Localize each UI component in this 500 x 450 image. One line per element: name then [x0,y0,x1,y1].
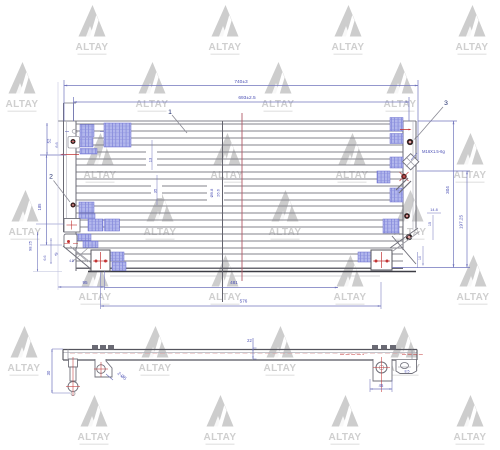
svg-text:1: 1 [168,109,172,116]
watermark r3c1 [84,133,117,183]
left tank [64,103,77,271]
dim 52 left [40,123,66,155]
bolt right 4 [406,234,412,240]
bottom right plate [371,228,420,270]
section line at x=222 [222,121,224,302]
dim 304 [418,121,457,268]
svg-text:ALTAY: ALTAY [8,363,41,374]
dim 45 [370,379,392,392]
svg-text:ALTAY: ALTAY [334,292,367,303]
left view bracket [94,359,112,377]
svg-text:ALTAY: ALTAY [78,432,111,443]
svg-text:52: 52 [47,138,52,143]
red arrow left [60,154,79,156]
dim 740±3 [64,79,418,160]
bar red centerline [70,354,424,355]
svg-text:26.6: 26.6 [216,188,221,197]
text clearing boxes [146,150,224,202]
label 1 [168,109,187,133]
svg-text:M16X1.5-6g: M16X1.5-6g [422,149,445,154]
svg-text:3: 3 [444,100,448,107]
dim 30 [46,349,70,393]
watermark r1c3 [332,5,365,55]
svg-text:ALTAY: ALTAY [384,99,417,110]
watermark r4c3 [269,190,302,240]
svg-text:ALTAY: ALTAY [454,170,487,181]
right flange [396,360,417,374]
watermark r3c2 [211,133,244,183]
right tank [403,121,416,250]
svg-text:ALTAY: ALTAY [139,363,172,374]
svg-text:ALTAY: ALTAY [262,99,295,110]
label 2 [49,174,70,203]
bolt left mid [70,202,75,207]
svg-text:ALTAY: ALTAY [209,292,242,303]
svg-text:ALTAY: ALTAY [454,432,487,443]
watermark r1c1 [76,5,109,55]
svg-text:ALTAY: ALTAY [79,292,112,303]
bolt right 3 [404,213,410,219]
svg-text:13: 13 [148,157,153,162]
left bracket mid [64,219,80,233]
svg-text:ALTAY: ALTAY [76,42,109,53]
bolt right 2 [400,172,409,181]
core top edge [58,120,416,122]
M16 thread label [411,149,445,160]
dim 95 bottom [58,82,105,290]
pipe fitting M16 [396,154,419,193]
bar clips left [92,345,114,350]
right fin hatches [358,118,403,263]
svg-text:30: 30 [46,370,51,375]
dim 197.25 [392,171,470,268]
watermark r2c4 [384,62,417,112]
svg-text:304: 304 [445,186,450,194]
left fin hatches [76,123,131,271]
watermark r1c4 [456,5,489,55]
svg-text:8.5: 8.5 [405,370,410,374]
dim 576 bottom view [101,272,382,309]
svg-text:4.8: 4.8 [69,259,74,263]
clip ellipse [72,129,77,133]
watermark r1c2 [209,5,242,55]
watermark r7c2 [204,395,237,445]
watermark r5c1 [79,255,112,305]
dim 98.25 left [28,232,74,272]
svg-text:2: 2 [49,174,53,181]
svg-text:481: 481 [230,280,238,285]
watermark r6c1 [8,326,41,376]
watermark r2c3 [262,62,295,112]
right view bracket [373,357,392,392]
core bottom edges [76,268,416,276]
svg-text:ALTAY: ALTAY [457,292,490,303]
watermark r7c1 [78,395,111,445]
clip dim ticks [65,131,104,133]
watermark r3c4 [454,133,487,183]
svg-text:693±2.5: 693±2.5 [238,95,256,101]
dim 185 left [36,155,64,245]
svg-text:2-Ø5: 2-Ø5 [116,371,127,382]
svg-text:197.25: 197.25 [459,215,464,229]
bar clips right [372,345,396,350]
bottom view bar [63,350,417,361]
label 3 [413,100,448,141]
svg-text:35: 35 [153,188,158,193]
condenser core tubes [76,124,403,268]
dim 35 core [153,175,158,205]
bolt right 1 [407,139,413,145]
svg-text:ALTAY: ALTAY [144,227,177,238]
svg-text:ALTAY: ALTAY [204,432,237,443]
dim 481 bottom [105,280,339,288]
svg-text:Ø9.8: Ø9.8 [209,188,214,197]
svg-text:6.6: 6.6 [43,256,47,261]
bottom left plate [91,250,110,271]
svg-text:45: 45 [379,383,384,388]
left pin [66,357,80,396]
bolt left top [70,139,75,144]
small dims right 14.8/15 [418,208,442,268]
watermark r6c3 [264,326,297,376]
label 2-Ø5 [106,371,128,382]
svg-text:ALTAY: ALTAY [329,432,362,443]
svg-text:ALTAY: ALTAY [456,42,489,53]
dim 22 [247,338,256,359]
dim 13 core [148,140,153,170]
svg-text:740±3: 740±3 [234,79,248,85]
watermark r3c3 [336,133,369,183]
watermark r7c4 [454,395,487,445]
svg-text:ALTAY: ALTAY [209,42,242,53]
svg-text:10: 10 [418,256,422,260]
watermark r4c2 [144,190,177,240]
watermark r5c2 [209,255,242,305]
clamp bracket left [68,137,80,149]
watermark r4c1 [9,190,42,240]
watermark r2c1 [6,62,39,112]
watermark r6c4 [388,326,421,376]
svg-text:ALTAY: ALTAY [136,99,169,110]
svg-text:15: 15 [428,222,432,226]
svg-text:14.8: 14.8 [430,208,437,212]
svg-text:ALTAY: ALTAY [9,227,42,238]
svg-text:576: 576 [240,299,248,304]
red arrow right [400,129,412,131]
svg-text:6.6: 6.6 [55,142,59,147]
svg-text:ALTAY: ALTAY [269,227,302,238]
watermark r5c4 [457,255,490,305]
svg-text:22: 22 [247,338,252,343]
svg-text:45: 45 [53,251,59,257]
watermark r2c2 [136,62,169,112]
svg-text:95: 95 [82,280,88,285]
left lower bracket [63,234,95,270]
watermark r4c4 [394,190,427,240]
watermark r6c2 [139,326,172,376]
watermark r5c3 [334,255,367,305]
red centerline x=242 [241,113,243,281]
svg-text:185: 185 [37,203,42,211]
dim 693±2.5 [74,95,410,121]
watermark r7c3 [329,395,362,445]
svg-text:ALTAY: ALTAY [6,99,39,110]
core center labels [209,188,221,197]
svg-text:ALTAY: ALTAY [332,42,365,53]
svg-text:98.25: 98.25 [28,240,33,251]
svg-text:ALTAY: ALTAY [264,363,297,374]
